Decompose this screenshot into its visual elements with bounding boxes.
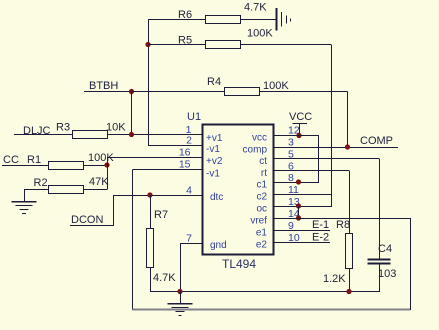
- svg-text:CC: CC: [3, 154, 19, 166]
- svg-text:R7: R7: [154, 209, 168, 221]
- node DLJC: [14, 125, 72, 137]
- wire: [132, 91, 225, 93]
- wire C4 bottom to gnd rail: [379, 264, 381, 293]
- svg-text:R1: R1: [27, 154, 41, 166]
- pin 1: [186, 124, 223, 144]
- capacitor C4: [368, 243, 397, 280]
- node pin12 junction: [296, 133, 301, 138]
- wire vertical from R6 row to pin 2: [148, 19, 150, 146]
- svg-text:c1: c1: [256, 180, 267, 191]
- pin 10: [256, 232, 300, 251]
- wire jog up to pin 16: [107, 157, 202, 165]
- node BTBH: [84, 80, 134, 94]
- op-amp U1 TL494 body: [187, 111, 274, 271]
- svg-text:TL494: TL494: [222, 257, 256, 271]
- gnd rail (inner): [180, 291, 379, 293]
- pin 6: [261, 161, 294, 180]
- wire R2 right end up to junction: [84, 165, 108, 190]
- pin 11: [256, 184, 299, 203]
- svg-text:c2: c2: [256, 192, 267, 203]
- svg-text:e2: e2: [256, 240, 268, 251]
- pin 15: [179, 159, 221, 180]
- svg-text:100K: 100K: [247, 28, 273, 40]
- svg-text:oc: oc: [256, 204, 267, 215]
- node CC: [2, 154, 48, 166]
- node pin1 junction: [129, 132, 134, 137]
- svg-text:ct: ct: [259, 156, 267, 167]
- wire pin 8: [273, 182, 318, 184]
- node COMP: [345, 135, 393, 150]
- svg-text:e1: e1: [256, 228, 268, 239]
- ground (left, below R2): [12, 202, 37, 214]
- svg-text:R8: R8: [336, 219, 350, 231]
- svg-text:R3: R3: [56, 122, 70, 134]
- node R1/R2 junction: [104, 162, 109, 167]
- wire BTBH down to pin 1 row: [131, 92, 133, 135]
- pin 12: [252, 125, 300, 144]
- pin 8: [256, 172, 294, 191]
- pin 13: [256, 196, 299, 215]
- node vref junction: [296, 215, 301, 220]
- wire pin 14 to right rail: [273, 218, 411, 310]
- wire R5 to vertical drop: [240, 45, 332, 207]
- wire R1 to junction: [84, 165, 107, 167]
- pin 7: [186, 233, 227, 252]
- pin 4: [186, 185, 223, 204]
- pin 16: [179, 147, 223, 168]
- svg-text:VCC: VCC: [289, 111, 312, 123]
- resistor R5: [178, 28, 273, 49]
- pin 9: [256, 220, 294, 239]
- wire pin 11: [273, 194, 331, 196]
- resistor R2: [34, 176, 110, 194]
- node R5 junction: [145, 42, 150, 47]
- wire pin 7 gnd: [180, 243, 202, 292]
- wire pin 9: [273, 219, 330, 231]
- wire pin 5 to C4: [273, 159, 380, 260]
- node DCON: [70, 195, 114, 226]
- resistor R8: [323, 219, 353, 285]
- wire oc to vref: [298, 206, 300, 218]
- svg-text:rt: rt: [261, 168, 267, 179]
- wire R4 to COMP node: [259, 92, 348, 148]
- svg-text:15: 15: [179, 159, 191, 171]
- svg-text:R6: R6: [178, 9, 192, 21]
- svg-text:100K: 100K: [263, 80, 289, 92]
- node oc junction: [296, 203, 301, 208]
- svg-text:dtc: dtc: [210, 192, 223, 203]
- node c1 junction: [296, 179, 301, 184]
- wire R7 bottom to gnd rail: [150, 267, 180, 292]
- svg-text:4.7K: 4.7K: [244, 2, 267, 14]
- ground (center bottom): [168, 292, 193, 316]
- ground (chassis, top right): [277, 8, 291, 31]
- pin 2: [186, 135, 220, 156]
- svg-text:U1: U1: [187, 111, 201, 123]
- svg-text:7: 7: [186, 233, 192, 245]
- svg-text:R2: R2: [34, 177, 48, 189]
- node gnd junction: [177, 289, 182, 294]
- wire pin 13: [273, 206, 331, 208]
- svg-text:BTBH: BTBH: [89, 80, 118, 92]
- wire pin 12 to c1: [273, 135, 319, 183]
- svg-text:4: 4: [186, 185, 192, 197]
- svg-text:E-1: E-1: [312, 219, 329, 231]
- resistor R6: [178, 2, 267, 24]
- node VCC: [289, 111, 312, 135]
- svg-text:16: 16: [179, 147, 191, 159]
- wire pin 3 COMP: [273, 147, 398, 149]
- wire R7 top lead: [150, 195, 152, 228]
- svg-text:vref: vref: [250, 216, 267, 227]
- svg-text:-v1: -v1: [206, 144, 220, 155]
- svg-text:DCON: DCON: [71, 214, 103, 226]
- svg-text:+v2: +v2: [206, 156, 223, 167]
- wire R2 left to ground: [24, 190, 48, 202]
- wire pin 15 elbow down to outer rail: [133, 170, 203, 310]
- svg-text:COMP: COMP: [360, 135, 393, 147]
- svg-text:vcc: vcc: [252, 133, 267, 144]
- pin 14: [250, 208, 300, 227]
- wire pin 10: [273, 232, 330, 244]
- svg-text:1.2K: 1.2K: [323, 273, 346, 285]
- resistor R7: [147, 209, 177, 284]
- pin 5: [259, 149, 294, 168]
- resistor R4: [207, 76, 289, 96]
- wire R8 bottom to gnd rail: [349, 268, 351, 292]
- svg-text:4.7K: 4.7K: [153, 272, 176, 284]
- svg-text:R5: R5: [178, 35, 192, 47]
- resistor R1: [27, 152, 114, 170]
- wire: [148, 44, 205, 46]
- svg-text:C4: C4: [378, 243, 392, 255]
- wire: [240, 19, 276, 21]
- svg-text:+v1: +v1: [206, 133, 223, 144]
- svg-text:103: 103: [378, 268, 396, 280]
- node R8 gnd junction: [346, 289, 351, 294]
- wire outer rail (bottom): [133, 309, 411, 311]
- svg-text:comp: comp: [243, 145, 268, 156]
- svg-text:DLJC: DLJC: [23, 125, 51, 137]
- svg-text:gnd: gnd: [210, 240, 227, 251]
- wire pin 2: [148, 145, 202, 147]
- svg-text:E-2: E-2: [312, 232, 329, 244]
- svg-text:3: 3: [288, 137, 294, 149]
- wire pin 6 to R8: [273, 171, 350, 234]
- svg-text:10K: 10K: [106, 122, 126, 134]
- wire R3 to pin 1: [107, 134, 202, 136]
- pin 3: [243, 137, 294, 156]
- svg-text:R4: R4: [207, 76, 221, 88]
- svg-text:2: 2: [186, 135, 192, 147]
- wire: [148, 19, 205, 21]
- svg-text:-v1: -v1: [206, 169, 220, 180]
- svg-text:47K: 47K: [89, 176, 109, 188]
- node dtc junction: [147, 192, 152, 197]
- resistor R3: [56, 122, 126, 139]
- wire pin 4: [114, 195, 203, 197]
